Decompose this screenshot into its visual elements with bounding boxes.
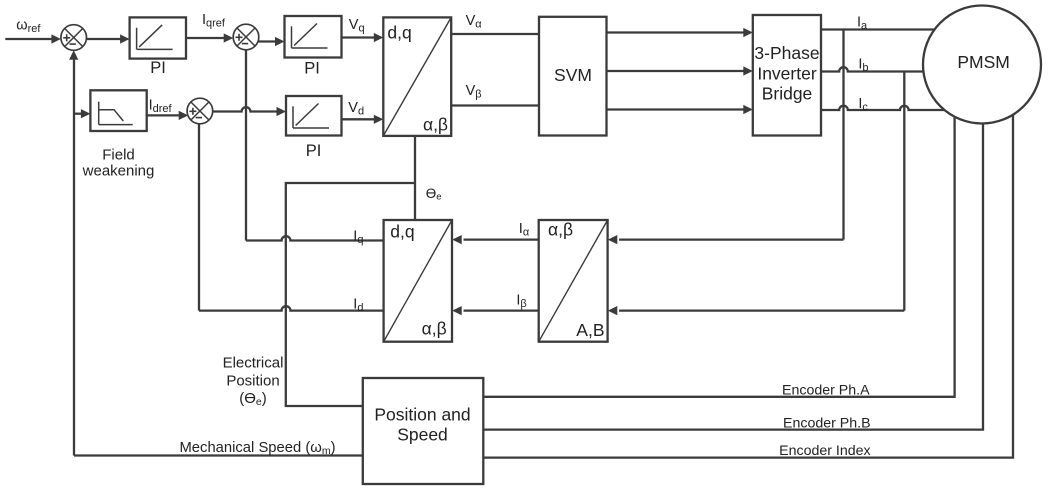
svg-text:SVM: SVM [554,65,592,85]
svg-text:α,β: α,β [548,219,573,239]
svg-text:Speed: Speed [397,425,448,445]
svg-text:weakening: weakening [82,163,155,180]
svg-text:PI: PI [306,142,322,160]
svg-text:Position: Position [226,373,279,390]
svg-text:Position and: Position and [374,405,470,425]
svg-text:PMSM: PMSM [957,52,1010,72]
svg-text:Encoder Index: Encoder Index [779,443,871,459]
svg-text:Bridge: Bridge [762,83,813,103]
svg-text:d,q: d,q [387,23,411,43]
svg-text:Inverter: Inverter [757,63,816,83]
svg-text:PI: PI [304,60,320,78]
svg-text:PI: PI [150,59,166,77]
svg-text:(Ɵe): (Ɵe) [239,390,267,408]
svg-text:d,q: d,q [390,221,414,241]
svg-text:Encoder Ph.B: Encoder Ph.B [783,415,871,431]
svg-text:α,β: α,β [423,115,448,135]
svg-text:Field: Field [102,147,135,164]
svg-text:Encoder Ph.A: Encoder Ph.A [782,382,870,398]
svg-text:Mechanical Speed (ωm): Mechanical Speed (ωm) [179,440,335,457]
svg-text:Electrical: Electrical [223,354,284,371]
svg-text:α,β: α,β [422,319,447,339]
svg-text:A,B: A,B [576,320,604,340]
svg-text:3-Phase: 3-Phase [754,43,819,63]
